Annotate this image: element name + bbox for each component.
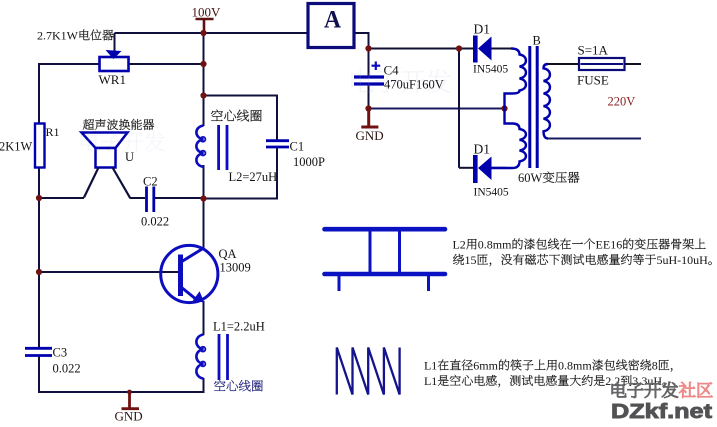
- diode D1 bottom cathode bar: [473, 155, 478, 183]
- power 100V symbol: [196, 18, 214, 21]
- wire rectified bus y48: [369, 48, 460, 50]
- capacitor C1 plates: [266, 139, 289, 142]
- wire A meter exit: [354, 32, 369, 34]
- wire WR1 right lead: [129, 63, 204, 65]
- note EE core feet: [338, 276, 341, 291]
- svg-text:IN5405: IN5405: [474, 187, 509, 199]
- note L2 text line2: [453, 254, 464, 265]
- svg-text:B: B: [533, 34, 541, 48]
- wire top bus 100V rail: [115, 32, 309, 34]
- note EE core center legs: [369, 231, 372, 272]
- svg-text:2.7K1W: 2.7K1W: [37, 29, 79, 43]
- label air-core coil top: [211, 109, 223, 120]
- svg-text:0.022: 0.022: [53, 362, 81, 376]
- transformer secondary winding: [544, 64, 550, 139]
- svg-text:GND: GND: [356, 128, 384, 143]
- inductor L1 coil: [196, 335, 203, 379]
- svg-text:2K1W: 2K1W: [0, 140, 33, 154]
- note EE core bottom bar: [325, 272, 446, 277]
- wire base horizontal: [39, 271, 179, 273]
- svg-text:L1=2.2uH: L1=2.2uH: [213, 320, 265, 334]
- transformer core bars: [528, 46, 531, 168]
- node bottom rail / ground: [127, 390, 132, 395]
- svg-text:EE16: EE16: [596, 238, 623, 252]
- svg-text:0.022: 0.022: [141, 215, 169, 229]
- svg-text:60W: 60W: [518, 171, 542, 185]
- svg-text:GND: GND: [115, 409, 143, 423]
- wire node row y198 right segment: [155, 197, 204, 199]
- wire bottom rail: [38, 391, 205, 393]
- inductor L2 coil: [196, 126, 203, 167]
- svg-text:C2: C2: [143, 175, 158, 189]
- svg-text:WR1: WR1: [99, 72, 126, 87]
- transformer primary lower winding: [491, 109, 526, 169]
- wire secondary top to fuse: [548, 63, 580, 65]
- svg-text:0.8mm: 0.8mm: [478, 238, 512, 252]
- svg-text:0.8mm: 0.8mm: [558, 359, 592, 373]
- transistor QA emitter stroke: [181, 287, 197, 300]
- svg-text:FUSE: FUSE: [577, 73, 609, 88]
- wire left vertical upper (node to R1): [38, 63, 40, 124]
- diode D1 top triangle: [478, 37, 492, 61]
- note winding zigzag: [337, 348, 400, 395]
- svg-text:D1: D1: [474, 22, 491, 37]
- wire D1 top right lead: [491, 48, 513, 50]
- ammeter A box: [308, 4, 354, 48]
- ground bottom rail: [128, 392, 131, 408]
- wire emitter vertical: [203, 301, 205, 335]
- inductor L2 core bars: [217, 125, 220, 170]
- svg-text:R1: R1: [46, 125, 60, 139]
- potentiometer WR1 wiper arrow: [106, 50, 122, 59]
- wire tank right upper: [276, 96, 278, 141]
- svg-text:QA: QA: [219, 247, 237, 261]
- svg-text:C1: C1: [290, 140, 305, 154]
- transducer U horn: [82, 133, 128, 149]
- wire D1 top left lead: [459, 48, 474, 50]
- node top-rail / main vertical: [200, 30, 206, 36]
- svg-text:IN5405: IN5405: [473, 64, 508, 76]
- node WR1 right / main vertical: [200, 61, 206, 67]
- fuse body: [579, 58, 625, 70]
- wire tank bottom: [204, 198, 279, 200]
- svg-text:C4: C4: [384, 63, 400, 78]
- label air-core coil bottom: [214, 380, 225, 391]
- wire WR1 wiper stem: [114, 33, 116, 53]
- svg-text:A: A: [324, 7, 341, 34]
- svg-text:13009: 13009: [220, 261, 251, 275]
- transformer primary upper winding: [505, 49, 526, 109]
- watermark near C4: [352, 69, 374, 92]
- capacitor C4 plus sign: [375, 62, 377, 71]
- wire tank right lower: [276, 148, 278, 200]
- svg-text:U: U: [125, 150, 134, 164]
- svg-text:L2: L2: [453, 238, 466, 252]
- node tank top tap: [200, 92, 206, 98]
- transistor QA base bar: [178, 255, 183, 297]
- svg-text:L1: L1: [424, 359, 437, 373]
- wire D1 bottom left lead: [459, 167, 474, 169]
- node rectified bus / diodes: [456, 45, 462, 51]
- transistor QA collector stroke: [181, 248, 205, 263]
- svg-text:220V: 220V: [608, 95, 636, 109]
- svg-text:S=1A: S=1A: [578, 43, 609, 58]
- ground under C4: [367, 109, 370, 127]
- note EE core top bar: [325, 227, 446, 232]
- svg-text:DZkf.net: DZkf.net: [611, 400, 712, 422]
- node C4 bottom / center-tap bus: [365, 105, 371, 111]
- wire secondary bottom output: [547, 138, 641, 140]
- svg-text:C3: C3: [53, 346, 68, 360]
- svg-text:100V: 100V: [192, 5, 222, 20]
- node left vertical / y198: [36, 195, 42, 201]
- diode D1 top cathode bar: [473, 36, 478, 63]
- wire C4 bottom lead: [368, 85, 370, 109]
- capacitor C2 plates: [145, 187, 148, 213]
- node left vertical / base wire: [36, 269, 42, 275]
- wire center-tap bus y108: [369, 108, 505, 110]
- resistor R1 body: [35, 124, 45, 168]
- wire main vertical below L2: [203, 165, 205, 200]
- wire main vertical above L2: [203, 32, 205, 126]
- svg-text:1000P: 1000P: [293, 155, 325, 169]
- logo site name: [612, 382, 626, 397]
- transducer left lead: [84, 168, 99, 198]
- capacitor C3 plates: [25, 347, 52, 350]
- wire left vertical lower (C3 to bottom rail): [38, 356, 40, 393]
- inductor L1 core bars: [218, 334, 221, 380]
- wire left vertical middle (R1 to C3): [38, 167, 40, 349]
- capacitor C4 plates: [354, 75, 384, 78]
- wire collector vertical: [203, 199, 205, 249]
- potentiometer WR1 body: [100, 57, 129, 71]
- svg-text:15: 15: [465, 253, 477, 267]
- svg-text:L1: L1: [424, 374, 437, 388]
- wire node row y198 mid segment: [130, 197, 146, 199]
- wire fuse to output: [624, 63, 641, 65]
- wire diode cathode vertical: [458, 49, 460, 168]
- transducer right lead: [113, 168, 131, 198]
- svg-text:6mm: 6mm: [473, 359, 498, 373]
- watermark near transducer: [81, 132, 99, 151]
- wire C4 top lead: [368, 49, 370, 77]
- wire node row y198 left segment: [39, 197, 84, 199]
- transistor QA circle: [161, 245, 218, 302]
- svg-text:L2=27uH: L2=27uH: [229, 170, 278, 184]
- svg-text:5uH-10uH: 5uH-10uH: [657, 253, 709, 267]
- wire L1 tail to bottom rail: [203, 378, 205, 393]
- diode D1 bottom triangle: [478, 157, 492, 181]
- label ultrasonic transducer: [83, 119, 94, 130]
- transducer U body: [96, 148, 116, 168]
- wire D1 bottom right lead: [491, 167, 507, 169]
- wire WR1 left lead: [38, 63, 99, 65]
- node y198 / main vertical: [200, 195, 206, 201]
- transistor QA emitter arrow: [193, 291, 205, 302]
- node center-tap / transformer: [501, 105, 507, 111]
- svg-text:8: 8: [652, 359, 658, 373]
- node rectified bus / C4: [365, 45, 371, 51]
- wire tank top: [204, 95, 279, 97]
- svg-text:D1: D1: [474, 142, 491, 157]
